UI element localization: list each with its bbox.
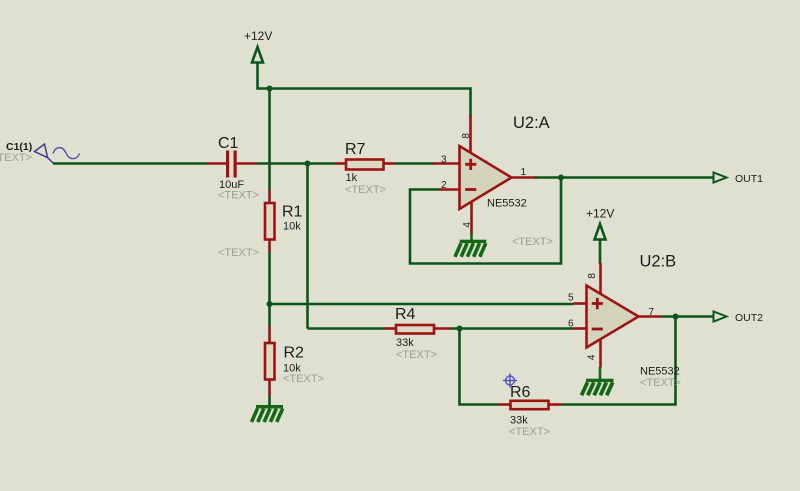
svg-text:<TEXT>: <TEXT>: [218, 190, 259, 202]
wire: R7 to U2:A pin 3: [395, 162, 435, 165]
svg-text:4: 4: [587, 354, 598, 360]
junction: signal node: [305, 161, 311, 167]
svg-text:R1: R1: [282, 204, 303, 221]
wire: input to C1: [53, 162, 207, 165]
wire: +12V rail to U2:A pin 8: [270, 89, 471, 118]
svg-text:<TEXT>: <TEXT>: [218, 247, 259, 259]
svg-text:5: 5: [568, 293, 574, 304]
wire: R4 to U2:B pin 6: [451, 327, 574, 330]
svg-text:<TEXT>: <TEXT>: [283, 373, 324, 385]
power +12V (B): [586, 207, 614, 265]
svg-text:8: 8: [461, 133, 472, 139]
input terminal C1(1): [0, 141, 80, 164]
svg-text:<TEXT>: <TEXT>: [345, 184, 386, 196]
ground (U2:B pin 4): [582, 367, 614, 395]
resistor R2: [265, 327, 324, 398]
svg-text:<TEXT>: <TEXT>: [509, 426, 550, 438]
svg-text:C1: C1: [218, 135, 239, 152]
ground (U2:A pin 4): [455, 233, 486, 257]
svg-text:1: 1: [521, 167, 527, 178]
op-amp U2:B: [568, 253, 681, 390]
svg-text:R2: R2: [284, 345, 305, 362]
resistor R4: [385, 306, 451, 361]
wire: signal branch down to R4 line: [306, 164, 309, 329]
svg-text:R4: R4: [395, 306, 416, 323]
resistor R7: [335, 141, 395, 196]
wire: R1 to bias node: [268, 252, 271, 328]
svg-text:+12V: +12V: [244, 29, 272, 43]
wire: R4 line from branch to R4: [308, 327, 386, 330]
resistor R6: [499, 384, 562, 438]
power +12V (A): [244, 29, 272, 89]
wire: bias node to U2:B pin 5: [270, 303, 574, 306]
svg-text:<TEXT>: <TEXT>: [0, 152, 32, 164]
capacitor C1: [207, 135, 259, 202]
svg-text:U2:A: U2:A: [513, 114, 550, 132]
svg-text:6: 6: [568, 319, 574, 330]
svg-text:<TEXT>: <TEXT>: [640, 377, 681, 389]
junction: +12V rail: [267, 86, 273, 92]
junction: OUT1 node: [558, 175, 564, 181]
terminal OUT1: [714, 173, 764, 186]
svg-text:<TEXT>: <TEXT>: [396, 349, 437, 361]
svg-text:7: 7: [649, 307, 655, 318]
svg-text:OUT1: OUT1: [735, 173, 763, 185]
wire: U2:A output to OUT1: [535, 176, 714, 179]
svg-text:U2:B: U2:B: [640, 253, 677, 271]
svg-text:4: 4: [462, 222, 473, 228]
svg-text:2: 2: [441, 180, 447, 191]
svg-text:33k: 33k: [396, 337, 414, 349]
svg-text:OUT2: OUT2: [735, 312, 763, 324]
svg-text:R7: R7: [345, 141, 366, 158]
terminal OUT2: [714, 312, 764, 325]
resistor R1: [218, 190, 303, 259]
wire: U2:A feedback loop: [410, 178, 561, 264]
wire: U2:B output to OUT2: [662, 315, 714, 318]
junction: OUT2 node: [673, 314, 679, 320]
svg-text:33k: 33k: [510, 415, 528, 427]
svg-text:<TEXT>: <TEXT>: [512, 236, 553, 248]
svg-text:+12V: +12V: [586, 207, 614, 221]
op-amp U2:A: [433, 114, 553, 248]
wire: +12V down to R1: [268, 89, 271, 192]
svg-text:NE5532: NE5532: [640, 366, 680, 378]
wire: C1 to R7: [257, 162, 336, 165]
svg-text:3: 3: [441, 155, 447, 166]
svg-text:NE5532: NE5532: [487, 198, 527, 210]
svg-text:10k: 10k: [283, 221, 301, 233]
wire: U2:B feedback down-left: [460, 329, 499, 405]
svg-text:1k: 1k: [346, 172, 358, 184]
junction: R4/R6 node: [457, 326, 463, 332]
junction: bias node: [267, 301, 273, 307]
wire: U2:B feedback right-up: [562, 317, 676, 405]
ground (R2): [252, 396, 284, 422]
svg-text:R6: R6: [510, 384, 531, 401]
origin marker: [503, 374, 517, 388]
svg-text:8: 8: [587, 273, 598, 279]
